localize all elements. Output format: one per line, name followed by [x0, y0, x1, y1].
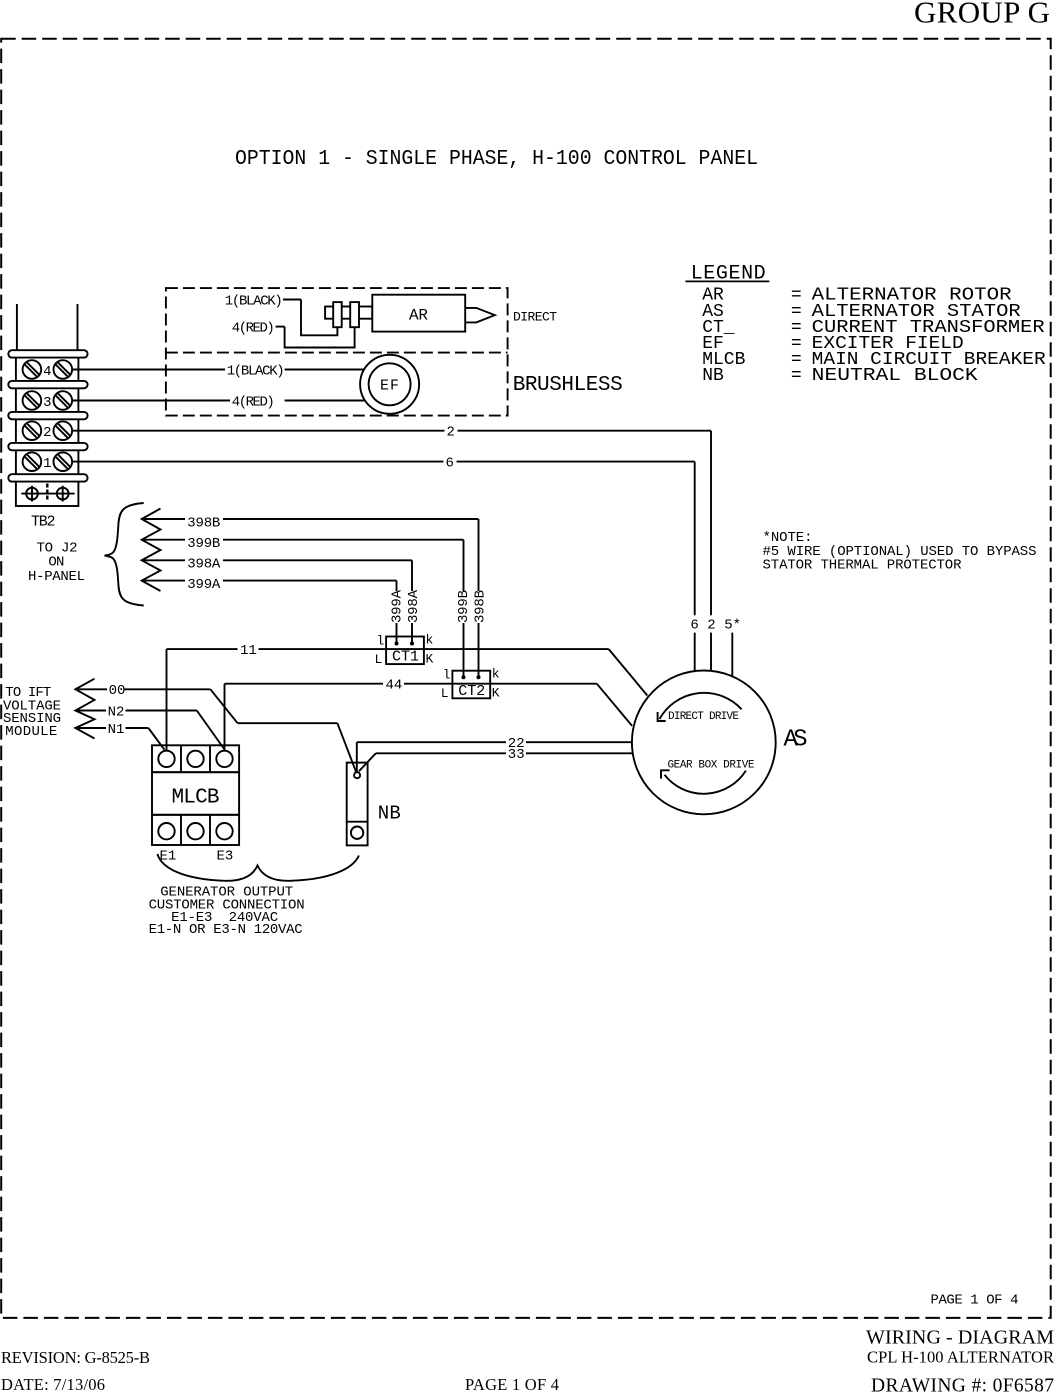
legend entry CT_: [702, 318, 1045, 338]
svg-text:399A: 399A: [187, 577, 221, 593]
net label TO IFT VOLTAGE SENSING MODULE: [3, 685, 61, 740]
svg-text:CT2: CT2: [458, 683, 485, 700]
MLCB bottom terminal row: [152, 815, 239, 845]
svg-text:5*: 5*: [724, 617, 741, 633]
svg-text:398B: 398B: [472, 590, 488, 623]
svg-text:EF: EF: [380, 378, 399, 395]
svg-text:4(RED): 4(RED): [232, 320, 275, 336]
svg-text:GROUP G: GROUP G: [914, 0, 1050, 30]
svg-text:44: 44: [386, 678, 403, 694]
legend entry AR: [702, 286, 1012, 306]
TB2 terminal 3 screws: [23, 391, 73, 410]
svg-text:399B: 399B: [456, 590, 472, 623]
svg-text:PAGE 1 OF 4: PAGE 1 OF 4: [465, 1375, 559, 1394]
svg-text:MLCB: MLCB: [172, 786, 220, 809]
svg-text:l: l: [377, 633, 385, 648]
legend header: [685, 263, 769, 286]
customer connection note: [149, 885, 305, 939]
wire 4(RED) to AR: [276, 327, 355, 348]
svg-text:NB: NB: [702, 366, 724, 386]
title block texts: [1, 1327, 1054, 1395]
svg-text:TB2: TB2: [31, 513, 55, 530]
alternator stator AS: [632, 671, 808, 815]
alternator rotor AR shaft: [325, 307, 372, 319]
NB top terminal circle: [354, 772, 360, 778]
wire 398A: [144, 560, 412, 643]
svg-text:MODULE: MODULE: [5, 724, 57, 740]
svg-text:E1-N OR E3-N 120VAC: E1-N OR E3-N 120VAC: [149, 922, 303, 938]
svg-text:REVISION: G-8525-B: REVISION: G-8525-B: [1, 1348, 150, 1367]
TB2 rail 4: [8, 443, 87, 450]
TB2 reference label: [31, 513, 55, 530]
svg-text:=: =: [791, 366, 802, 386]
legend entry NB: [702, 366, 978, 386]
svg-text:WIRING - DIAGRAM: WIRING - DIAGRAM: [866, 1327, 1054, 1349]
wire 5 (optional stub into AS): [731, 633, 733, 677]
svg-text:33: 33: [508, 747, 525, 763]
svg-text:NEUTRAL BLOCK: NEUTRAL BLOCK: [812, 366, 978, 386]
AR shaft tip: [465, 308, 495, 323]
svg-text:399A: 399A: [389, 589, 405, 623]
TB2 rail 3: [8, 412, 87, 419]
TB2 rail 1: [8, 350, 87, 357]
svg-text:BRUSHLESS: BRUSHLESS: [513, 374, 623, 397]
wire 399A: [144, 581, 397, 644]
page label PAGE 1 OF 4 (in frame): [931, 1293, 1019, 1309]
svg-text:1(BLACK): 1(BLACK): [227, 363, 285, 379]
CT2 pin dot 398B: [477, 675, 481, 679]
legend entry AS: [702, 302, 1021, 322]
svg-text:N2: N2: [108, 704, 125, 720]
svg-text:DATE: 7/13/06: DATE: 7/13/06: [1, 1375, 105, 1394]
TB2 ground terminals: [21, 484, 74, 502]
harness arrows zigzag: [142, 509, 161, 592]
customer connection brace: [157, 854, 359, 881]
current transformer CT1: [386, 637, 424, 666]
wire 44 (MLCB to AS via CT2): [225, 684, 633, 751]
legend entry MLCB: [702, 350, 1046, 370]
sheet title GROUP G: [914, 0, 1050, 30]
CT2 pin dot 399B: [462, 675, 466, 679]
wire 399B: [144, 540, 464, 678]
svg-text:k: k: [426, 632, 434, 647]
wire terminal4 to EF 1(BLACK): [72, 369, 364, 371]
svg-text:AR: AR: [409, 307, 428, 325]
svg-text:k: k: [492, 667, 500, 682]
note about wire 5: [763, 530, 1037, 573]
neutral block NB: [347, 763, 368, 846]
svg-text:1(BLACK): 1(BLACK): [225, 293, 283, 309]
wire 1(BLACK) to AR: [283, 300, 337, 336]
svg-text:3: 3: [43, 395, 51, 411]
svg-text:1: 1: [43, 456, 51, 472]
node labels 6 2 5*: [690, 617, 741, 633]
svg-text:N1: N1: [108, 722, 125, 738]
svg-text:DIRECT: DIRECT: [513, 310, 557, 325]
svg-text:OPTION 1 - SINGLE PHASE, H-100: OPTION 1 - SINGLE PHASE, H-100 CONTROL P…: [235, 147, 758, 171]
svg-text:DRAWING #: 0F6587: DRAWING #: 0F6587: [871, 1376, 1054, 1395]
svg-text:E3: E3: [217, 849, 234, 865]
svg-text:GEAR BOX DRIVE: GEAR BOX DRIVE: [668, 760, 755, 772]
TB2 terminal 2 screws: [23, 421, 73, 440]
TB2 terminal 1 screws: [23, 452, 73, 471]
MLCB body: [152, 772, 239, 815]
svg-text:398A: 398A: [406, 589, 422, 623]
AS gear box drive rotation arrow: [661, 770, 746, 793]
AR slip ring 1: [333, 302, 342, 327]
svg-text:H-PANEL: H-PANEL: [28, 569, 85, 585]
net label TO J2 ON H-PANEL: [28, 541, 85, 585]
wire 6 (terminal 1 to AS): [72, 462, 695, 671]
harness brace to J2: [105, 503, 144, 606]
svg-text:4(RED): 4(RED): [232, 394, 275, 410]
svg-text:PAGE 1 OF 4: PAGE 1 OF 4: [931, 1293, 1019, 1309]
svg-text:398A: 398A: [187, 557, 221, 573]
svg-text:2: 2: [707, 617, 715, 633]
svg-text:l: l: [443, 668, 451, 683]
svg-text:DIRECT DRIVE: DIRECT DRIVE: [668, 711, 739, 723]
alternator rotor AR body: [372, 295, 465, 332]
svg-text:CT1: CT1: [392, 649, 419, 666]
svg-text:6: 6: [446, 456, 454, 472]
svg-text:2: 2: [43, 425, 51, 441]
svg-text:L: L: [441, 686, 449, 701]
wire N2: [78, 711, 225, 750]
svg-text:4: 4: [43, 364, 51, 380]
svg-text:398B: 398B: [187, 515, 220, 531]
wire 33 (NB to AS): [359, 753, 633, 771]
wire 11 (MLCB to AS via CT1): [167, 649, 648, 751]
svg-text:11: 11: [240, 643, 257, 659]
AR slip ring 2: [350, 302, 359, 327]
CT1 pin dot 398A: [410, 642, 414, 646]
svg-text:STATOR THERMAL PROTECTOR: STATOR THERMAL PROTECTOR: [763, 557, 963, 573]
svg-text:399B: 399B: [187, 536, 220, 552]
terminal block TB2 body: [16, 304, 79, 506]
svg-text:NB: NB: [378, 803, 401, 825]
legend entry EF: [702, 334, 964, 354]
sensing arrows zigzag: [75, 679, 94, 739]
rotor/exciter enclosure dashed box: [166, 288, 508, 416]
svg-text:AS: AS: [784, 727, 808, 754]
wire N1: [78, 728, 165, 750]
main circuit breaker MLCB top terminal row: [152, 745, 239, 772]
svg-text:6: 6: [690, 617, 698, 633]
wire 398B: [144, 519, 479, 677]
exciter field EF: [360, 355, 419, 414]
svg-text:K: K: [426, 652, 434, 667]
svg-text:00: 00: [109, 683, 126, 699]
wire terminal3 to EF 4(RED): [72, 400, 365, 402]
svg-text:K: K: [492, 686, 500, 701]
CT1 pin dot 399A: [395, 642, 399, 646]
wire 00: [78, 689, 356, 772]
TB2 rail 2: [8, 381, 87, 388]
TB2 rail 5: [8, 474, 87, 481]
wire 2 (terminal 2 to AS): [72, 431, 711, 671]
wire 22 (NB to AS): [357, 742, 632, 772]
AS direct drive rotation arrow: [658, 693, 742, 721]
svg-text:2: 2: [447, 425, 455, 441]
current transformer CT2: [452, 671, 490, 700]
TB2 terminal 4 screws: [23, 360, 73, 379]
drawing title OPTION 1: [235, 147, 758, 171]
svg-text:L: L: [375, 652, 383, 667]
svg-text:CPL H-100 ALTERNATOR: CPL H-100 ALTERNATOR: [867, 1348, 1054, 1367]
